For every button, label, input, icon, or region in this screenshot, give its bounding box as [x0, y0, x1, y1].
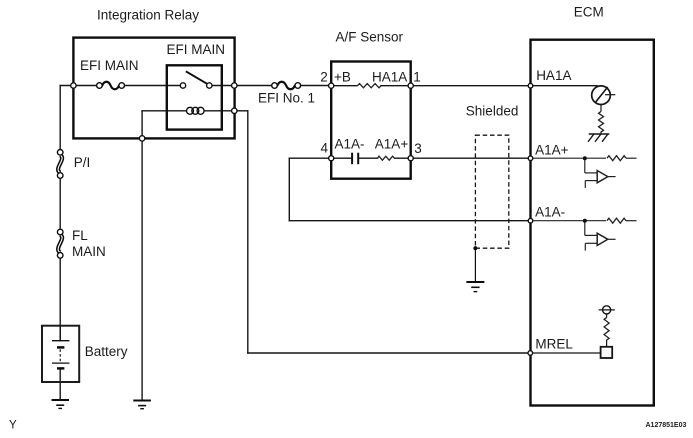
- svg-text:+B: +B: [334, 70, 351, 85]
- svg-text:FL: FL: [72, 228, 88, 243]
- svg-text:EFI No. 1: EFI No. 1: [258, 91, 315, 106]
- svg-text:A1A-: A1A-: [535, 204, 565, 219]
- svg-text:1: 1: [413, 70, 421, 85]
- svg-text:EFI MAIN: EFI MAIN: [80, 58, 139, 73]
- svg-text:Battery: Battery: [85, 344, 128, 359]
- svg-text:HA1A: HA1A: [372, 70, 407, 85]
- svg-text:Shielded: Shielded: [466, 103, 519, 118]
- svg-text:Y: Y: [9, 420, 17, 432]
- svg-text:A/F Sensor: A/F Sensor: [336, 30, 404, 45]
- svg-text:P/I: P/I: [74, 155, 91, 170]
- svg-text:A1A-: A1A-: [335, 137, 365, 152]
- svg-text:EFI MAIN: EFI MAIN: [167, 42, 226, 57]
- svg-text:ECM: ECM: [574, 5, 604, 20]
- svg-text:MREL: MREL: [535, 337, 573, 352]
- svg-text:4: 4: [321, 140, 329, 155]
- svg-text:HA1A: HA1A: [536, 68, 571, 83]
- svg-text:A1A+: A1A+: [375, 137, 409, 152]
- svg-text:2: 2: [320, 70, 328, 85]
- svg-text:Integration Relay: Integration Relay: [97, 8, 199, 23]
- svg-text:A1A+: A1A+: [535, 143, 569, 158]
- svg-text:3: 3: [414, 141, 422, 156]
- svg-text:MAIN: MAIN: [72, 244, 106, 259]
- svg-text:A127851E03: A127851E03: [646, 422, 687, 429]
